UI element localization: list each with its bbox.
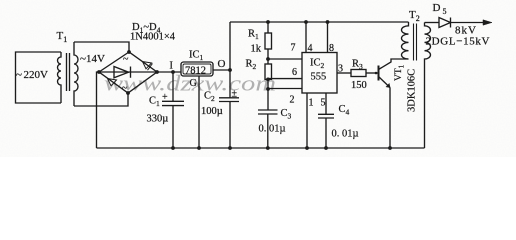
transformer T1 primary winding xyxy=(58,52,62,103)
capacitor C3 upper wire xyxy=(267,79,269,110)
wire bridge plus to IC1 input xyxy=(157,71,181,73)
resistor R1 body xyxy=(265,33,272,49)
wire emitter to ground rail xyxy=(389,88,391,149)
wire 555 pin3 output xyxy=(337,72,351,74)
svg-text:G: G xyxy=(190,78,197,89)
ground rail xyxy=(97,147,425,149)
svg-text:±: ± xyxy=(232,89,238,100)
wire R2 bottom to 555 pin6 xyxy=(268,78,302,80)
junction C1 tap xyxy=(171,70,175,74)
svg-text:4: 4 xyxy=(308,43,313,54)
transistor VT1 emitter arrow xyxy=(386,84,390,88)
wire 555 pin8 to rail xyxy=(327,22,329,53)
svg-text:5: 5 xyxy=(321,98,326,109)
junction bridge AC bottom xyxy=(126,91,130,95)
capacitor C3 lower wire xyxy=(267,114,269,148)
svg-text:I: I xyxy=(170,61,173,72)
bridge lower-left edge diode xyxy=(108,79,117,86)
diode D5 xyxy=(439,18,451,28)
junction rail emitter xyxy=(388,146,392,150)
wire node R1/R2 to 555 pin7 xyxy=(268,58,302,60)
junction pin4 rail xyxy=(304,20,308,24)
svg-text:~: ~ xyxy=(123,54,129,65)
wire node O riser to +12V rail xyxy=(229,22,231,70)
transformer T1 core xyxy=(67,53,70,91)
timer IC2 555 box xyxy=(302,53,337,94)
svg-text:330µ: 330µ xyxy=(147,114,169,125)
junction bridge plus xyxy=(155,70,159,74)
svg-text:8: 8 xyxy=(329,43,334,54)
svg-text:2DGL−15kV: 2DGL−15kV xyxy=(426,36,490,48)
transistor VT1 collector xyxy=(379,59,409,70)
junction R1 rail xyxy=(266,20,270,24)
svg-text:3: 3 xyxy=(338,64,343,75)
junction bridge minus xyxy=(97,70,101,74)
svg-text:555: 555 xyxy=(311,72,327,83)
wire IC1 ground pin xyxy=(198,76,200,148)
svg-text:~220V: ~220V xyxy=(16,69,48,81)
wire T2 secondary top to D5 xyxy=(425,22,440,24)
svg-text:~14V: ~14V xyxy=(80,53,105,65)
svg-text:3DK106C: 3DK106C xyxy=(407,69,418,112)
bridge rectifier D1-D4 diamond xyxy=(99,52,157,93)
junction bridge AC top xyxy=(127,50,131,54)
svg-text:150: 150 xyxy=(351,80,367,91)
wire secondary bottom to bridge AC bottom xyxy=(74,93,128,106)
junction R1/R2/pin7 xyxy=(266,57,270,61)
svg-text:6: 6 xyxy=(292,67,297,78)
AC source ~220V box xyxy=(16,52,62,103)
capacitor C1 branch wire xyxy=(172,72,174,101)
HV output arrowhead xyxy=(483,20,492,25)
wire node to 555 pin2 xyxy=(268,88,302,90)
junction R2/pin6 xyxy=(266,78,270,82)
capacitor C3 plates xyxy=(258,110,278,114)
resistor R2 body xyxy=(265,64,272,79)
capacitor C2 plates xyxy=(219,98,239,102)
svg-text:100µ: 100µ xyxy=(201,106,223,117)
svg-text:1k: 1k xyxy=(251,44,262,55)
svg-text:O: O xyxy=(218,58,226,70)
svg-text:1N4001×4: 1N4001×4 xyxy=(130,32,176,43)
junction rail C4 xyxy=(324,146,328,150)
transformer T2 core xyxy=(414,24,417,61)
transformer T1 secondary winding xyxy=(74,42,78,106)
junction pin2 xyxy=(266,87,270,91)
svg-text:7812: 7812 xyxy=(185,66,206,77)
transformer T2 primary winding xyxy=(402,22,409,59)
junction pin8 rail xyxy=(326,20,330,24)
wire 555 pin1 to ground xyxy=(306,93,308,148)
capacitor C2 upper wire xyxy=(229,70,231,98)
svg-text:2: 2 xyxy=(290,95,295,106)
svg-text:1: 1 xyxy=(309,98,314,109)
transformer T2 secondary winding xyxy=(425,23,431,149)
transistor VT1 base bar xyxy=(378,66,380,81)
wire R3 to base of VT1 xyxy=(366,72,379,74)
bridge middle line xyxy=(99,71,157,73)
wire 555 pin4 to rail xyxy=(305,22,307,53)
bridge upper-right edge diode xyxy=(143,62,153,71)
resistor R3 body xyxy=(351,70,366,77)
resistor R1 bottom wire xyxy=(267,49,269,64)
svg-text:~: ~ xyxy=(122,83,128,94)
svg-text:+: + xyxy=(162,92,168,103)
wire IC1 output to node O xyxy=(213,69,230,71)
capacitor C1 lower wire xyxy=(172,106,174,148)
wire D5 to HV output xyxy=(451,22,485,24)
junction rail C3 xyxy=(266,146,270,150)
capacitor C2 lower wire xyxy=(229,102,231,149)
transistor VT1 emitter xyxy=(379,77,391,88)
junction base node xyxy=(375,72,378,75)
svg-text:0. 01µ: 0. 01µ xyxy=(259,124,286,135)
capacitor C1 plates xyxy=(162,101,184,105)
regulator IC1 7812 box xyxy=(181,62,213,76)
capacitor C4 plates xyxy=(318,114,334,118)
junction rail C1 xyxy=(171,146,175,150)
svg-text:7: 7 xyxy=(291,43,296,54)
capacitor C4 lower wire xyxy=(325,118,327,148)
junction node O xyxy=(228,68,232,72)
junction rail C2 xyxy=(228,146,232,150)
bridge middle diode xyxy=(114,67,131,78)
wire bridge minus to ground rail xyxy=(97,72,100,148)
junction rail G xyxy=(197,146,201,150)
wire secondary top to bridge AC top xyxy=(74,42,129,52)
svg-text:0. 01µ: 0. 01µ xyxy=(332,129,359,140)
wire 555 pin5 to C4 xyxy=(325,93,327,114)
resistor R1 top wire xyxy=(267,22,269,33)
junction rail pin1 xyxy=(305,146,309,150)
+12V top rail xyxy=(230,21,409,23)
